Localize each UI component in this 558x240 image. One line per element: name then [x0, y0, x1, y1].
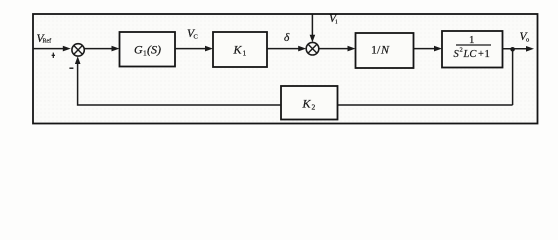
label Vref — [37, 33, 52, 45]
wire output — [503, 48, 529, 50]
svg-text:2: 2 — [312, 103, 316, 112]
svg-text:N: N — [380, 43, 390, 57]
minus sign — [69, 68, 73, 69]
svg-text:K: K — [233, 43, 243, 57]
label Vi — [329, 13, 338, 26]
arrowhead into 1/N — [348, 46, 356, 52]
svg-text:1/: 1/ — [371, 43, 381, 57]
block G1(S) — [120, 32, 176, 67]
arrowhead into S2 — [298, 46, 306, 52]
svg-text:C: C — [194, 34, 198, 41]
wire S1 to G1 — [84, 48, 113, 50]
svg-text:o: o — [526, 37, 529, 44]
svg-text:1: 1 — [469, 34, 475, 46]
label Vo — [520, 31, 530, 44]
block K2 — [281, 86, 338, 120]
wire S2 to 1/N — [319, 48, 350, 50]
block K1 — [213, 32, 267, 67]
summing junction S1 — [72, 44, 84, 56]
wire K1 to S2 — [267, 48, 301, 50]
arrowhead into LC block — [434, 46, 442, 52]
svg-text:2: 2 — [460, 47, 463, 54]
svg-text:1: 1 — [243, 49, 247, 58]
plus sign — [52, 53, 55, 58]
svg-text:(S): (S) — [147, 43, 161, 57]
svg-text:Ref: Ref — [43, 38, 52, 45]
arrowhead output — [526, 46, 534, 52]
block 1/N — [356, 33, 414, 68]
label Vc — [187, 28, 198, 41]
svg-text:K: K — [302, 97, 312, 111]
block 1/(S^2LC+1) — [442, 31, 503, 68]
arrowhead Vi down — [310, 35, 316, 43]
wire feedback horizontal left — [78, 62, 281, 105]
wire input Vref — [33, 48, 66, 50]
arrowhead feedback up into S1 — [75, 56, 81, 64]
wire feedback horizontal right — [338, 104, 513, 106]
svg-text:+1: +1 — [478, 49, 490, 60]
svg-text:i: i — [336, 19, 338, 26]
arrowhead into G1 — [112, 46, 120, 52]
outer frame — [33, 14, 538, 124]
summing junction S2 — [306, 42, 319, 55]
svg-text:LC: LC — [463, 49, 478, 60]
wire Vi vertical — [311, 15, 313, 37]
wire G1 to K1 — [175, 48, 207, 50]
arrowhead input — [63, 46, 71, 52]
svg-text:G: G — [134, 43, 143, 57]
node dot output branch — [510, 47, 515, 52]
wire 1/N to LC block — [414, 48, 437, 50]
wire feedback vertical right — [512, 49, 514, 105]
svg-text:δ: δ — [284, 32, 290, 44]
arrowhead into K1 — [205, 46, 213, 52]
